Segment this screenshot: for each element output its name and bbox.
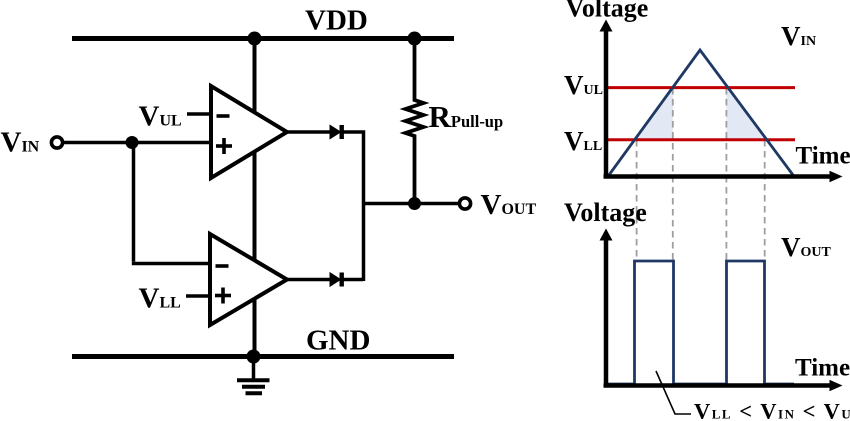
threshold line VLL xyxy=(607,138,795,141)
wire: VDD rail xyxy=(72,36,454,41)
svg-text:Time: Time xyxy=(796,143,850,170)
annotation pointer line xyxy=(656,371,691,414)
op-amp U2 xyxy=(210,234,287,325)
wire: VUL stub to U1 inverting input xyxy=(187,112,211,116)
dashed guide line 1 xyxy=(636,140,638,261)
junction dot: node A xyxy=(126,136,139,149)
junction dot: VDD rail / resistor branch xyxy=(408,32,422,46)
wire: VIN terminal to node A xyxy=(62,141,132,145)
axis: top graph X xyxy=(604,171,843,182)
axis: top graph Y xyxy=(600,20,613,177)
dashed guide line 3 xyxy=(725,88,727,261)
wire: output branch to VOUT node xyxy=(364,202,460,206)
svg-text:Voltage: Voltage xyxy=(566,0,649,22)
junction dot: output node xyxy=(408,197,421,210)
wire: D2 cathode to corner xyxy=(343,278,364,282)
wire: U2 output to diode D2 xyxy=(287,278,331,282)
wire: D1 cathode to corner, then down xyxy=(343,132,364,281)
svg-text:Time: Time xyxy=(795,355,850,382)
wire: VLL stub to U2 non-inverting input xyxy=(186,294,210,298)
svg-text:GND: GND xyxy=(306,325,370,357)
waveform VIN (triangle wave) xyxy=(609,50,793,175)
resistor RPull-up xyxy=(406,39,424,205)
op-amp U1 xyxy=(211,86,287,178)
wire: node A to U1 non-inverting input xyxy=(132,141,211,145)
svg-text:Voltage: Voltage xyxy=(564,198,647,227)
wire: supply vertical from VDD rail to GND rail xyxy=(253,39,257,357)
axis: bottom graph Y xyxy=(600,229,613,386)
shaded region: falling crossing xyxy=(726,88,766,140)
wire: GND rail xyxy=(72,354,454,359)
junction dot: VDD rail / supply vertical xyxy=(248,32,262,46)
wire: to U2 inverting input xyxy=(132,262,210,266)
junction dot: GND rail / supply vertical xyxy=(247,350,261,364)
svg-text:VDD: VDD xyxy=(305,5,368,37)
shaded region: rising crossing xyxy=(637,88,673,140)
dashed guide line 4 xyxy=(764,140,766,261)
wire: U1 output to diode D1 xyxy=(287,130,331,134)
terminal VOUT (open circle) xyxy=(459,198,470,209)
waveform VOUT (square wave) xyxy=(608,261,794,384)
ground symbol xyxy=(237,357,270,394)
dashed guide line 2 xyxy=(672,88,674,261)
axis: bottom graph X xyxy=(604,380,843,391)
wire: node A down leg xyxy=(132,143,136,262)
threshold line VUL xyxy=(607,86,795,89)
terminal VIN (open circle) xyxy=(51,137,62,148)
diode D1 xyxy=(330,125,342,139)
diode D2 xyxy=(330,273,342,287)
